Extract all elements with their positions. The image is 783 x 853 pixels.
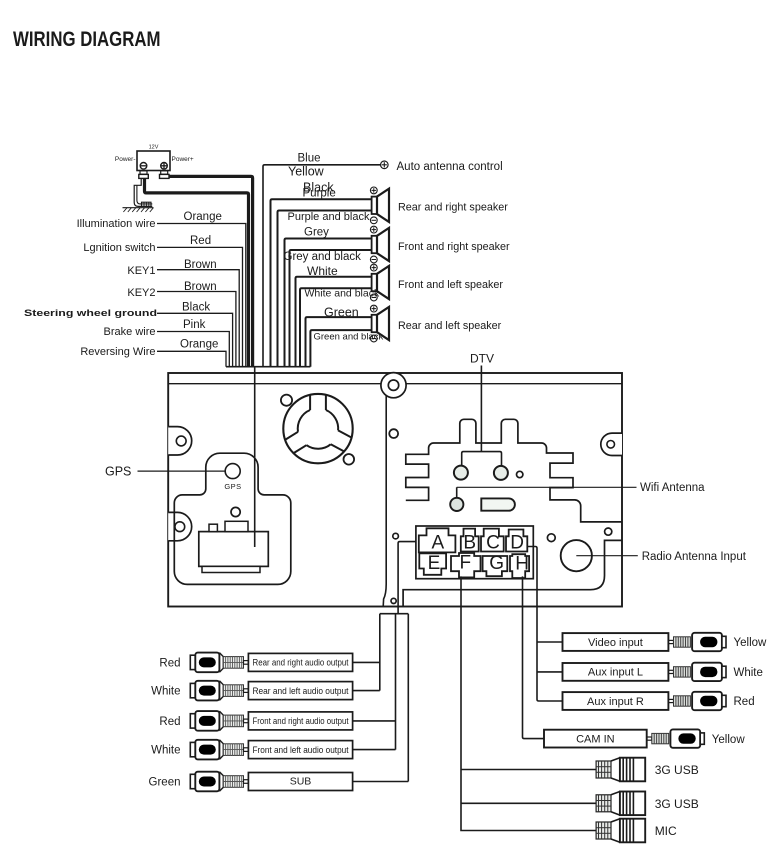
- wire radio antenna pointer: [576, 555, 638, 557]
- box CAM IN: [544, 730, 647, 748]
- svg-text:Red: Red: [734, 696, 755, 708]
- wire DTV: [480, 366, 482, 452]
- RCA plug cam-in (Yellow): [647, 729, 705, 747]
- svg-text:Aux input L: Aux input L: [588, 667, 643, 679]
- speaker rear-right: [370, 187, 389, 224]
- connector pin E: [419, 553, 446, 575]
- junction hole at chassis bottom: [391, 598, 396, 603]
- wire yellow power+: [169, 176, 253, 366]
- wire black power-: [145, 178, 249, 367]
- svg-text:CAM IN: CAM IN: [576, 733, 615, 745]
- svg-text:MIC: MIC: [655, 824, 677, 838]
- radio antenna input socket: [561, 540, 592, 571]
- svg-text:Reversing Wire: Reversing Wire: [80, 346, 155, 358]
- screw hole left of radio socket: [547, 534, 555, 542]
- chassis middle seam: [383, 384, 386, 607]
- svg-text:Yellow: Yellow: [712, 734, 746, 746]
- RCA plug front-left-out (White): [190, 740, 248, 760]
- svg-text:Purple: Purple: [303, 188, 336, 200]
- svg-text:Front and left audio output: Front and left audio output: [253, 745, 349, 755]
- svg-text:Front and left speaker: Front and left speaker: [398, 279, 503, 291]
- wire from pin F to USB/MIC: [461, 576, 597, 830]
- wire brown (KEY2): [157, 292, 236, 367]
- connector pin C: [481, 529, 504, 554]
- svg-text:White: White: [151, 686, 180, 698]
- svg-text:Red: Red: [190, 235, 211, 247]
- svg-text:Purple and black: Purple and black: [288, 211, 370, 223]
- svg-text:White: White: [734, 667, 763, 679]
- svg-text:D: D: [510, 533, 524, 554]
- screw hole right of fan: [389, 429, 398, 438]
- chassis top mounting hole: [381, 373, 406, 398]
- GPS module outline: [174, 453, 290, 584]
- ground chassis symbol: [123, 179, 154, 212]
- svg-text:Aux input R: Aux input R: [587, 696, 644, 708]
- RCA plug sub-out (Green): [190, 772, 248, 792]
- svg-text:Rear and right speaker: Rear and right speaker: [398, 201, 508, 213]
- box Aux input L: [563, 663, 669, 681]
- wire rear-right audio link: [353, 661, 380, 663]
- screw hole near fan top-left: [281, 395, 292, 406]
- svg-text:3G USB: 3G USB: [655, 763, 699, 777]
- svg-text:Rear and left audio output: Rear and left audio output: [253, 686, 349, 696]
- USB connector mic: [596, 819, 645, 843]
- svg-text:GPS: GPS: [105, 465, 131, 479]
- DTV connector pin 2: [494, 466, 508, 480]
- wire green and black: [310, 330, 371, 367]
- svg-text:DTV: DTV: [470, 352, 494, 366]
- svg-text:Red: Red: [159, 657, 180, 669]
- connector pin D: [506, 530, 527, 554]
- wire white: [296, 277, 372, 367]
- svg-text:Power-: Power-: [115, 156, 136, 163]
- main harness connector block: [416, 526, 533, 579]
- wire GPS antenna lead into unit: [254, 367, 256, 547]
- wire rear-left audio link: [353, 690, 380, 692]
- RCA plug front-right-out (Red): [190, 711, 248, 731]
- GPS connector block: [199, 521, 268, 572]
- svg-text:12V: 12V: [149, 145, 159, 151]
- wire front-left audio link: [353, 749, 396, 751]
- svg-text:Orange: Orange: [180, 339, 218, 351]
- wire branch to 3G USB 2: [461, 802, 597, 804]
- speaker rear-left: [370, 305, 389, 342]
- svg-text:Front and right speaker: Front and right speaker: [398, 241, 510, 253]
- box Front and right audio output: [248, 712, 352, 730]
- RCA plug aux-r (Red): [668, 692, 726, 710]
- svg-text:White: White: [307, 264, 338, 278]
- plus terminal auto antenna: [381, 161, 389, 169]
- box Rear and left audio output: [248, 682, 352, 700]
- svg-text:3G USB: 3G USB: [655, 797, 699, 811]
- svg-text:Power+: Power+: [172, 156, 194, 163]
- connector pin B: [461, 529, 479, 554]
- svg-text:Yellow: Yellow: [288, 165, 325, 179]
- wire branch to Video input: [537, 641, 563, 643]
- svg-text:White: White: [151, 745, 180, 757]
- wire green: [306, 317, 372, 367]
- svg-text:GPS: GPS: [224, 482, 241, 491]
- wire bundle cap below unit: [380, 613, 409, 615]
- connector pin H: [510, 554, 529, 579]
- GPS pointer line: [138, 470, 226, 472]
- connector pin G: [483, 553, 508, 576]
- wire branch to Aux input L: [537, 671, 563, 673]
- wire grey: [285, 239, 372, 367]
- wire white and black: [300, 288, 372, 366]
- box Aux input R: [563, 692, 669, 710]
- svg-text:G: G: [489, 553, 504, 574]
- svg-text:Brake wire: Brake wire: [104, 326, 156, 338]
- USB connector 3g-usb-1: [596, 758, 645, 782]
- svg-text:KEY2: KEY2: [127, 287, 155, 299]
- svg-text:Pink: Pink: [183, 319, 206, 331]
- svg-text:SUB: SUB: [290, 776, 312, 788]
- svg-text:Illumination wire: Illumination wire: [77, 218, 156, 230]
- wire SUB link: [353, 781, 409, 783]
- svg-text:H: H: [515, 554, 529, 575]
- wire to rear audio outputs: [379, 614, 381, 691]
- svg-text:C: C: [486, 533, 500, 554]
- svg-text:KEY1: KEY1: [127, 265, 155, 277]
- USB connector 3g-usb-2: [596, 792, 645, 816]
- chassis slot: [481, 498, 515, 510]
- svg-text:Yellow: Yellow: [734, 637, 768, 649]
- junction hole at seam: [393, 533, 399, 539]
- svg-text:Brown: Brown: [184, 281, 217, 293]
- wire pink (Brake wire): [157, 332, 229, 367]
- svg-text:A: A: [432, 533, 445, 554]
- svg-text:Rear and left speaker: Rear and left speaker: [398, 320, 502, 332]
- svg-text:Brown: Brown: [184, 259, 217, 271]
- wire grey and black: [290, 250, 372, 367]
- svg-text:Grey and black: Grey and black: [284, 251, 362, 263]
- connector pin F: [451, 552, 481, 577]
- wire front-right audio link: [353, 720, 396, 722]
- chassis top seam line: [168, 383, 622, 385]
- connector pin A: [419, 528, 456, 553]
- svg-text:Front and right audio output: Front and right audio output: [253, 716, 349, 726]
- wire-bundle cap above unit: [226, 366, 310, 368]
- svg-text:Rear and right audio output: Rear and right audio output: [253, 658, 349, 668]
- svg-text:Radio Antenna Input: Radio Antenna Input: [642, 551, 747, 563]
- DTV tuner shield outline: [406, 419, 622, 522]
- RCA plug video-in (Yellow): [668, 633, 726, 651]
- svg-text:Green: Green: [324, 306, 359, 320]
- svg-text:Orange: Orange: [184, 211, 222, 223]
- wire purple and black: [278, 211, 372, 367]
- svg-text:Wifi Antenna: Wifi Antenna: [640, 482, 705, 494]
- box Rear and right audio output: [248, 653, 352, 671]
- box SUB: [248, 773, 352, 791]
- chassis left tab hole upper: [168, 427, 192, 455]
- GPS antenna connector circle: [225, 464, 240, 479]
- head unit chassis: [168, 373, 622, 607]
- battery 12V: [137, 145, 170, 179]
- wire to front audio outputs: [395, 614, 397, 750]
- screw hole near fan bottom-right: [344, 454, 355, 465]
- svg-text:Blue: Blue: [298, 153, 321, 165]
- svg-text:B: B: [463, 533, 476, 554]
- RCA plug rear-left-out (White): [190, 681, 248, 701]
- wire orange (Illumination wire): [157, 224, 246, 367]
- svg-text:Black: Black: [182, 302, 210, 314]
- GPS screw hole: [231, 507, 240, 516]
- chassis right tab hole: [601, 433, 622, 455]
- speaker front-right: [370, 226, 389, 263]
- wire to SUB: [407, 614, 409, 782]
- wire from pin D to AV inputs: [528, 547, 563, 702]
- wire orange (Reversing Wire): [157, 351, 226, 366]
- wire brown (KEY1): [157, 270, 239, 367]
- svg-text:Video input: Video input: [588, 637, 643, 649]
- speaker front-left: [370, 264, 389, 301]
- svg-text:Lgnition switch: Lgnition switch: [83, 242, 155, 254]
- wire blue (auto antenna control): [263, 165, 380, 367]
- svg-text:F: F: [459, 552, 471, 573]
- wire branch to 3G USB 1: [461, 769, 597, 771]
- svg-text:Grey: Grey: [304, 227, 329, 239]
- wire red (Lgnition switch): [157, 247, 243, 366]
- svg-text:WIRING DIAGRAM: WIRING DIAGRAM: [13, 28, 161, 51]
- wire purple: [271, 199, 372, 366]
- wire wifi antenna pointer: [457, 486, 637, 488]
- svg-text:Green: Green: [149, 777, 181, 789]
- cooling fan: [283, 394, 352, 463]
- DTV connector stems: [462, 452, 502, 473]
- wifi antenna pad: [450, 487, 463, 511]
- box Front and left audio output: [248, 741, 352, 759]
- svg-text:Red: Red: [159, 716, 180, 728]
- svg-text:Steering wheel ground: Steering wheel ground: [24, 308, 157, 319]
- DTV connector pin 1: [454, 466, 468, 480]
- wire from pin A to audio outputs: [398, 542, 416, 614]
- svg-text:Auto antenna control: Auto antenna control: [397, 161, 503, 173]
- RCA plug aux-l (White): [668, 663, 726, 681]
- svg-text:Green and black: Green and black: [314, 332, 384, 343]
- screw hole above radio socket: [605, 528, 612, 535]
- box Video input: [563, 633, 669, 651]
- chassis left tab hole lower: [168, 512, 191, 540]
- wire from pin H to CAM IN: [523, 576, 545, 738]
- DTV small hole: [517, 471, 523, 477]
- svg-text:White and black: White and black: [305, 287, 380, 299]
- wire black (Steering wheel ground): [157, 313, 233, 366]
- RCA plug rear-right-out (Red): [190, 653, 248, 673]
- svg-text:E: E: [428, 553, 441, 574]
- chassis bottom-right seam: [403, 540, 622, 606]
